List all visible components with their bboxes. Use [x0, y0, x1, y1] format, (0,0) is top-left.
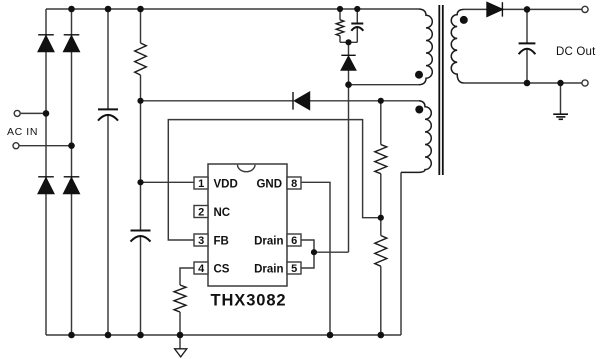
svg-text:Drain: Drain [254, 264, 283, 276]
svg-text:THX3082: THX3082 [211, 292, 287, 310]
svg-text:AC IN: AC IN [7, 126, 38, 138]
svg-text:8: 8 [291, 178, 297, 190]
svg-text:GND: GND [256, 179, 282, 191]
svg-text:NC: NC [214, 207, 231, 219]
svg-text:3: 3 [198, 235, 204, 247]
svg-text:Drain: Drain [254, 236, 283, 248]
svg-text:2: 2 [198, 207, 204, 219]
svg-text:1: 1 [198, 178, 204, 190]
svg-text:6: 6 [291, 235, 297, 247]
svg-text:5: 5 [291, 263, 297, 275]
svg-text:VDD: VDD [214, 179, 238, 191]
svg-text:CS: CS [214, 264, 230, 276]
svg-text:FB: FB [214, 236, 229, 248]
svg-text:DC Out: DC Out [556, 46, 596, 58]
svg-text:4: 4 [198, 263, 205, 275]
